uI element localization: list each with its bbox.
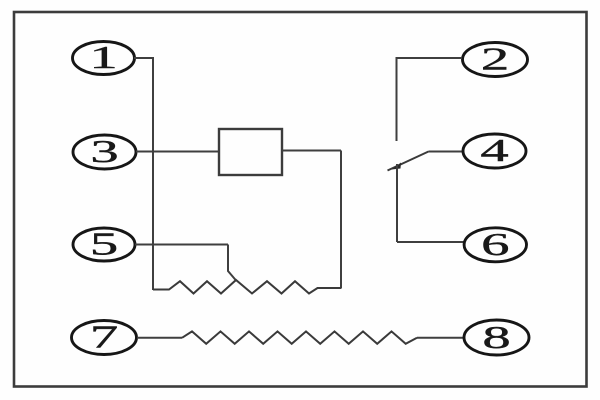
wire resistor to terminal 8 (417, 337, 464, 339)
terminal 7 (72, 320, 137, 355)
svg-text:2: 2 (481, 42, 509, 77)
svg-text:3: 3 (90, 134, 118, 169)
resistor between 7 and 8 (182, 331, 417, 343)
terminal 1 (73, 40, 135, 75)
terminal 4 (463, 133, 526, 168)
wire terminal 7 to resistor (137, 337, 182, 339)
wire terminal 1 to left bus (134, 57, 153, 59)
terminal 8 (464, 320, 529, 355)
wire right vertical of coil loop (340, 151, 342, 289)
wire blade to terminal 4 (429, 151, 464, 153)
wire terminal 2 to upper contact (397, 57, 463, 59)
terminal 3 (73, 134, 136, 169)
svg-text:5: 5 (90, 227, 118, 262)
terminal 2 (463, 42, 528, 77)
switch blade (388, 152, 429, 171)
wire lower contact to terminal 6 (397, 241, 464, 243)
svg-text:6: 6 (481, 227, 509, 262)
svg-text:4: 4 (480, 133, 508, 168)
svg-text:8: 8 (482, 320, 510, 355)
svg-text:7: 7 (90, 320, 118, 355)
relay coil box (219, 129, 282, 175)
terminal 6 (464, 227, 526, 262)
wire lower contact vertical (396, 164, 398, 242)
wire upper contact vertical (396, 57, 398, 141)
wire left vertical bus (152, 57, 154, 290)
switch contact mark (392, 163, 402, 170)
wire coil to right vertical (282, 150, 341, 152)
svg-text:1: 1 (89, 40, 117, 75)
tapped resistor winding (153, 280, 341, 294)
terminal 5 (73, 227, 135, 262)
wire terminal 3 to coil (136, 151, 219, 153)
wire terminal 5 to winding tap (135, 245, 237, 282)
